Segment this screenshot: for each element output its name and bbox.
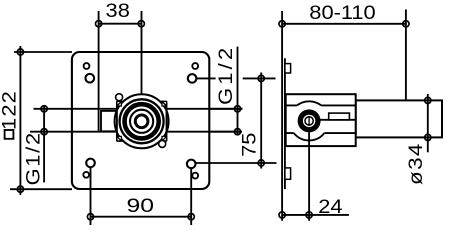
valve: corner mark NE [162,102,167,107]
valve: corner mark SE [162,136,167,141]
dim 38: dimension line [99,23,142,25]
valve: flange bottom edge segments [117,140,167,142]
valve: screw circle NW [116,94,123,101]
wire: port line upper y=108.8 [34,108,243,110]
wire: port line lower y=131.7 [30,131,242,133]
valve: corner mark NW [117,102,122,107]
side view: disc inner black ring [304,116,314,126]
text 24 [318,196,342,217]
valve: left inlet tab [101,111,117,131]
valve: escutcheon outer circle r27 [115,94,169,148]
valve: ring r22 [120,99,164,143]
svg-text:80-110: 80-110 [309,2,375,23]
node: left port marker column x=44.1 [43,105,45,182]
hole: top-left small [84,63,90,69]
text G1/2 right rotated [215,45,236,105]
hole: top-right small [192,63,198,69]
svg-text:90: 90 [126,195,153,217]
side view: pipe sleeve [356,100,442,137]
hole: bottom-right big [187,160,196,169]
side view: boss top bump arc [297,101,321,105]
side view: body line B with gap under boss [286,132,356,134]
dim 122: vertical line with markers [19,46,21,195]
wire: bottom dim line to plate [10,188,72,190]
dim 90: dimension line [91,216,192,218]
svg-text:122: 122 [0,90,20,130]
wire: top dim line to plate [14,51,72,53]
svg-text:75: 75 [239,133,260,157]
wire: port lines right of flange [167,109,243,132]
dim 90: extension lines from holes [91,167,192,225]
text 80-110 [309,2,375,23]
dim 80-110: dimension line [282,23,406,25]
hole: top-left big [86,74,95,83]
side view: disc center [306,118,313,125]
hole: bottom-right small [192,173,198,179]
side view: tab support line [320,119,356,121]
hole: bottom-left small [83,172,89,178]
dim o34: vertical line [427,94,429,152]
dim 38: extension lines [99,11,142,132]
wire: bottom hole leader line y=162.4 [196,162,277,164]
node: right port marker column x=237.5, extends up as G1/2 leader [237,47,239,135]
svg-text:24: 24 [318,196,342,217]
valve: flange left edge [116,102,118,141]
dim 24: dimension line [282,214,349,216]
svg-text:G1/2: G1/2 [215,45,236,105]
svg-text:38: 38 [106,0,130,21]
side view: body line A with gap under boss [286,104,356,106]
side view: tab [329,113,350,120]
svg-text:ø34: ø34 [405,142,426,185]
plate: front wall plate rounded square [72,52,209,189]
valve: thin ring [130,110,153,133]
text G1/2 left rotated [23,131,44,185]
svg-text:G1/2: G1/2 [23,131,44,185]
valve: screw circle SE [159,140,166,147]
side view: center line down [308,132,310,221]
side view: wall left line [281,11,283,221]
text 90 [126,195,153,217]
valve: flange right edge [166,102,168,141]
text 38 [106,0,130,21]
wire: top hole leader line y=78.4 [197,77,276,79]
side view: body rectangle [286,94,356,146]
symbol square of dim 122 [5,130,14,139]
text o34 rotated [405,142,426,185]
wire: port lines through plate interior [72,109,117,132]
valve: bold ring [125,104,159,138]
hole: top-right big [188,74,197,83]
dim 75: vertical line [260,73,262,169]
side view: disc white ring [303,115,315,127]
text 75 rotated [239,133,260,157]
side view: disc black [298,109,321,132]
text 122 rotated [0,90,20,130]
side view: center tick [308,116,310,126]
side view: clip top [285,64,291,73]
dim 80-110: right extension line [405,10,407,101]
valve: flange top edge segments [117,101,167,103]
side view: clip bottom [285,168,291,179]
side view: boss bottom bump arc [294,133,325,140]
side view: wall right line [284,58,286,189]
valve: corner mark SW [117,136,122,141]
hole: bottom-left big [86,159,95,168]
valve: inner ring [135,115,148,128]
